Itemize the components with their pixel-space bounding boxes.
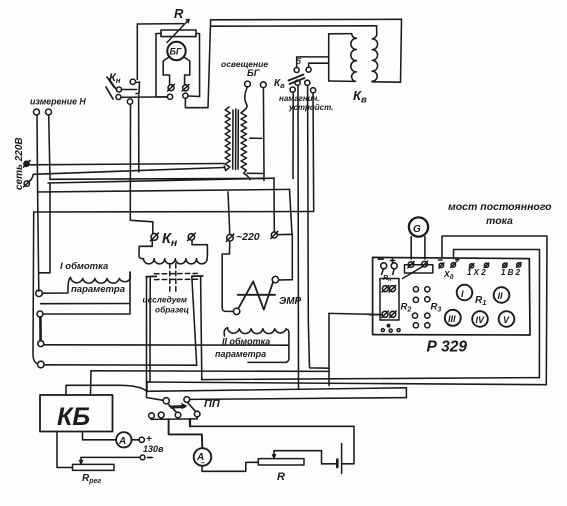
svg-text:1 Х 2: 1 Х 2	[467, 268, 486, 277]
svg-text:устройст.: устройст.	[288, 103, 333, 112]
svg-text:Кн: Кн	[162, 231, 178, 249]
svg-text:R1: R1	[475, 295, 486, 307]
svg-text:БГ: БГ	[170, 47, 182, 57]
svg-text:освещение: освещение	[221, 59, 268, 69]
svg-text:измерение Н: измерение Н	[30, 97, 86, 107]
svg-text:IV: IV	[476, 315, 486, 325]
svg-text:Кн: Кн	[109, 72, 121, 85]
svg-text:I: I	[461, 289, 464, 299]
svg-text:–: –	[148, 452, 154, 463]
svg-text:R: R	[174, 6, 184, 21]
svg-text:сеть 220В: сеть 220В	[14, 137, 25, 190]
svg-text:Р 329: Р 329	[427, 339, 468, 356]
svg-text:III: III	[448, 314, 456, 324]
svg-text:V: V	[503, 315, 510, 325]
svg-text:образец: образец	[155, 305, 189, 315]
svg-text:параметра: параметра	[71, 284, 125, 295]
svg-text:мост постоянного: мост постоянного	[448, 201, 552, 213]
svg-text:R3: R3	[431, 302, 442, 314]
svg-text:Кв: Кв	[353, 88, 367, 106]
svg-text:ЭМР: ЭМР	[279, 296, 302, 307]
svg-text:ПП: ПП	[204, 398, 221, 410]
svg-text:Кв: Кв	[274, 78, 285, 90]
svg-text:параметра: параметра	[215, 349, 266, 359]
svg-text:I обмотка: I обмотка	[60, 261, 108, 272]
svg-text:Хд: Хд	[443, 269, 454, 281]
svg-text:намагнич.: намагнич.	[279, 94, 320, 103]
svg-text:1 В 2: 1 В 2	[501, 268, 521, 277]
svg-text:Rн: Rн	[383, 275, 391, 283]
svg-text:КБ: КБ	[57, 403, 90, 431]
svg-text:R2: R2	[401, 302, 412, 314]
svg-text:БГ: БГ	[247, 68, 261, 79]
svg-text:II обмотка: II обмотка	[222, 337, 270, 347]
svg-text:б: б	[296, 57, 302, 66]
svg-text:~220: ~220	[236, 231, 260, 243]
svg-text:исследуем: исследуем	[143, 295, 188, 305]
svg-text:тока: тока	[486, 215, 513, 227]
svg-text:II: II	[498, 291, 504, 301]
svg-text:R: R	[277, 471, 285, 483]
svg-text:А: А	[118, 436, 126, 447]
svg-text:G: G	[413, 224, 421, 235]
svg-text:Rрег: Rрег	[82, 473, 101, 485]
svg-text:–: –	[201, 460, 205, 467]
